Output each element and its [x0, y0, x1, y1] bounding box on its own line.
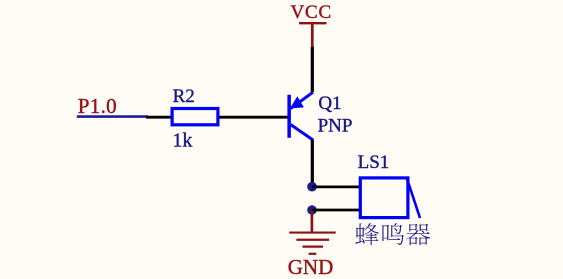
transistor Q1 collector diagonal — [291, 125, 314, 141]
ground bar 2 — [296, 239, 329, 241]
power VCC stub — [311, 23, 314, 47]
svg-text:PNP: PNP — [318, 115, 353, 136]
wire VCC to emitter — [311, 47, 314, 92]
char 器 — [406, 224, 430, 246]
junction dot 1 — [307, 182, 317, 192]
char 蜂 — [355, 223, 379, 245]
wire dot2 down to ground — [311, 211, 314, 232]
svg-text:R2: R2 — [173, 86, 195, 107]
svg-text:LS1: LS1 — [358, 152, 390, 173]
svg-text:VCC: VCC — [290, 2, 331, 23]
wire dot1 to buzzer pin 1 — [312, 185, 360, 188]
wire P1.0 to resistor R2 — [146, 116, 172, 119]
transistor Q1 base bar — [287, 95, 291, 138]
svg-text:Q1: Q1 — [318, 93, 341, 114]
svg-text:GND: GND — [288, 255, 334, 279]
wire resistor to base — [220, 116, 289, 119]
resistor R2 body — [172, 109, 218, 125]
svg-text:1k: 1k — [172, 129, 192, 151]
buzzer LS1 box — [360, 178, 408, 218]
transistor Q1 emitter arrow — [290, 96, 304, 108]
wire collector down to dot1 — [311, 140, 314, 187]
ground bar 3 — [303, 246, 324, 248]
wire P1.0 blue segment — [77, 115, 148, 118]
junction dot 2 — [307, 205, 317, 215]
svg-text:P1.0: P1.0 — [78, 94, 117, 118]
buzzer LS1 diagonal lead — [407, 178, 420, 219]
power VCC bar — [299, 22, 327, 24]
wire dot2 to buzzer pin 2 — [312, 209, 360, 212]
ground bar 4 — [309, 253, 317, 255]
transistor Q1 emitter diagonal — [291, 92, 313, 108]
char 鸣 — [382, 223, 404, 245]
ground bar 1 — [289, 231, 335, 233]
